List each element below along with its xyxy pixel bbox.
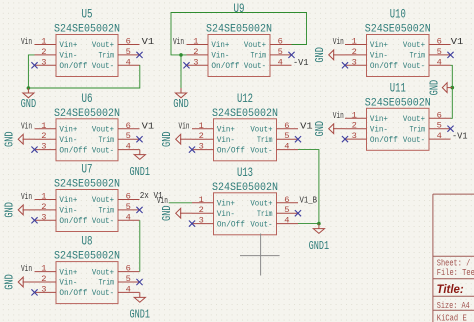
svg-text:Vout-: Vout- xyxy=(403,136,425,145)
svg-text:Trim: Trim xyxy=(99,135,115,145)
no-connect X U12 pin3 xyxy=(189,147,195,153)
IC U6 DC-DC converter body and pins xyxy=(35,119,140,161)
svg-text:On/Off: On/Off xyxy=(59,288,87,298)
svg-text:Vin-: Vin- xyxy=(59,206,77,216)
wire U12 pin4 right and down xyxy=(298,150,319,224)
svg-text:S24SE05002N: S24SE05002N xyxy=(212,182,278,194)
wire U6 pin4 stub xyxy=(139,149,141,151)
svg-text:3: 3 xyxy=(41,142,46,152)
svg-text:3: 3 xyxy=(199,142,204,152)
svg-text:3: 3 xyxy=(41,284,46,294)
svg-text:U9: U9 xyxy=(234,1,245,16)
no-connect X U13 pin3 xyxy=(189,221,195,227)
svg-text:Title:: Title: xyxy=(437,284,467,296)
svg-text:Vout-: Vout- xyxy=(92,62,114,71)
svg-text:Trim: Trim xyxy=(99,278,115,288)
IC U5 DC-DC converter body and pins xyxy=(35,35,140,77)
power symbol GND (left, rotated) U6 pin2 xyxy=(3,131,35,147)
svg-text:3: 3 xyxy=(352,131,357,141)
IC U9 DC-DC converter body and pins xyxy=(187,35,292,77)
power symbol GND (attached left of junction) right column xyxy=(427,80,452,96)
svg-text:Vout-: Vout- xyxy=(92,217,114,226)
svg-text:5: 5 xyxy=(126,47,131,57)
svg-text:5: 5 xyxy=(126,274,131,284)
svg-text:Vin-: Vin- xyxy=(217,209,235,219)
svg-text:4: 4 xyxy=(126,212,131,222)
power symbol GND1 (down) at U8 pin4 xyxy=(130,292,151,321)
svg-text:6: 6 xyxy=(437,37,442,47)
svg-text:U12: U12 xyxy=(237,91,253,106)
no-connect X U11 pin3 xyxy=(342,136,348,142)
svg-text:V1: V1 xyxy=(142,120,155,131)
power symbol GND (left, rotated) U7 pin2 xyxy=(3,202,35,218)
svg-text:6: 6 xyxy=(126,121,131,131)
svg-text:Vin: Vin xyxy=(157,195,168,206)
svg-text:Size: A4: Size: A4 xyxy=(437,301,470,311)
svg-text:GND: GND xyxy=(160,131,174,147)
svg-text:S24SE05002N: S24SE05002N xyxy=(365,24,431,36)
svg-text:V1: V1 xyxy=(142,36,155,47)
svg-text:Vin: Vin xyxy=(173,36,184,47)
no-connect X U12 pin5 xyxy=(295,136,301,142)
svg-text:S24SE05002N: S24SE05002N xyxy=(54,108,120,120)
no-connect X U13 pin5 xyxy=(295,210,301,216)
svg-text:GND: GND xyxy=(160,205,174,221)
svg-text:GND: GND xyxy=(3,202,17,218)
svg-text:Vout+: Vout+ xyxy=(92,268,114,277)
svg-text:4: 4 xyxy=(284,142,289,152)
svg-text:Vout+: Vout+ xyxy=(403,41,425,50)
svg-text:On/Off: On/Off xyxy=(211,61,239,71)
svg-text:1: 1 xyxy=(352,37,357,47)
no-connect X U11 pin5 xyxy=(447,126,453,132)
svg-text:V1_B: V1_B xyxy=(300,194,318,205)
svg-text:5: 5 xyxy=(126,131,131,141)
svg-text:S24SE05002N: S24SE05002N xyxy=(206,24,272,36)
svg-text:Vin: Vin xyxy=(21,36,32,47)
svg-text:1: 1 xyxy=(352,110,357,120)
svg-text:Vin+: Vin+ xyxy=(370,114,388,124)
svg-text:Vin: Vin xyxy=(179,120,190,131)
svg-text:GND: GND xyxy=(427,80,441,96)
svg-text:V1: V1 xyxy=(300,120,313,131)
junction GND node right xyxy=(451,86,455,90)
svg-text:Vout+: Vout+ xyxy=(244,41,266,50)
svg-text:Vout+: Vout+ xyxy=(250,126,272,135)
svg-text:S24SE05002N: S24SE05002N xyxy=(365,97,431,109)
svg-text:Vin: Vin xyxy=(333,110,344,121)
svg-text:Vin-: Vin- xyxy=(217,135,235,145)
no-connect X U10 pin5 xyxy=(447,52,453,58)
svg-text:On/Off: On/Off xyxy=(370,135,398,145)
svg-text:Vin+: Vin+ xyxy=(370,40,388,50)
no-connect X U7 pin3 xyxy=(31,217,37,223)
svg-text:GND: GND xyxy=(21,97,37,111)
svg-text:2: 2 xyxy=(41,202,46,212)
svg-text:Vin-: Vin- xyxy=(59,278,77,288)
svg-text:4: 4 xyxy=(126,284,131,294)
power symbol GND (down) below U9 xyxy=(173,88,189,111)
svg-text:1: 1 xyxy=(199,121,204,131)
svg-text:4: 4 xyxy=(126,57,131,67)
svg-text:Trim: Trim xyxy=(410,51,426,61)
svg-text:KiCad E: KiCad E xyxy=(437,313,467,322)
svg-text:U7: U7 xyxy=(82,162,93,177)
no-connect X U9 pin5 xyxy=(288,52,294,58)
power symbol GND (left, rotated) U8 pin2 xyxy=(3,274,35,290)
svg-text:GND: GND xyxy=(3,274,17,290)
power symbol GND (down) below U5 xyxy=(21,88,37,111)
svg-text:6: 6 xyxy=(126,192,131,202)
svg-text:Vout+: Vout+ xyxy=(92,41,114,50)
svg-text:GND: GND xyxy=(3,131,17,147)
svg-text:1: 1 xyxy=(41,121,46,131)
svg-text:4: 4 xyxy=(284,216,289,226)
wire U13 pin4 to GND1 junction xyxy=(298,223,319,225)
svg-text:GND: GND xyxy=(173,97,189,111)
IC U13 DC-DC converter body and pins xyxy=(192,193,298,235)
svg-text:Trim: Trim xyxy=(410,124,426,134)
svg-text:S24SE05002N: S24SE05002N xyxy=(54,179,120,191)
no-connect X U5 pin3 xyxy=(31,62,37,68)
svg-text:2: 2 xyxy=(41,47,46,57)
svg-text:6: 6 xyxy=(126,37,131,47)
svg-text:2: 2 xyxy=(41,274,46,284)
svg-text:Vin+: Vin+ xyxy=(59,267,77,277)
svg-text:Vout+: Vout+ xyxy=(92,126,114,135)
wire U5 pin4 down and left to GND junction xyxy=(28,65,139,88)
svg-text:Trim: Trim xyxy=(257,135,273,145)
junction U13 GND1 node xyxy=(317,222,321,226)
svg-text:1: 1 xyxy=(41,192,46,202)
svg-text:5: 5 xyxy=(284,131,289,141)
svg-text:1: 1 xyxy=(193,37,198,47)
svg-text:3: 3 xyxy=(199,216,204,226)
svg-text:Vin+: Vin+ xyxy=(211,40,229,50)
svg-text:4: 4 xyxy=(437,57,442,67)
svg-text:Vin: Vin xyxy=(21,191,32,202)
svg-text:6: 6 xyxy=(126,264,131,274)
IC U12 DC-DC converter body and pins xyxy=(192,119,298,161)
svg-text:3: 3 xyxy=(41,212,46,222)
svg-text:Vin+: Vin+ xyxy=(59,125,77,135)
svg-text:GND: GND xyxy=(313,47,327,63)
svg-text:Vin+: Vin+ xyxy=(59,40,77,50)
svg-text:U8: U8 xyxy=(82,234,93,249)
svg-text:2: 2 xyxy=(41,131,46,141)
svg-text:GND1: GND1 xyxy=(130,165,151,179)
svg-text:U11: U11 xyxy=(390,80,406,95)
svg-text:4: 4 xyxy=(437,131,442,141)
svg-text:2: 2 xyxy=(193,47,198,57)
svg-text:On/Off: On/Off xyxy=(59,145,87,155)
power symbol GND (left, rotated) U10 pin2 xyxy=(313,47,345,63)
svg-text:Vout-: Vout- xyxy=(250,146,272,155)
svg-text:Vin-: Vin- xyxy=(59,51,77,61)
svg-text:Vin: Vin xyxy=(21,263,32,274)
svg-text:2: 2 xyxy=(199,205,204,215)
svg-text:Trim: Trim xyxy=(99,51,115,61)
svg-text:Vin+: Vin+ xyxy=(217,199,235,209)
wire U5 pin2 to GND junction xyxy=(28,55,34,88)
svg-text:Sheet: /: Sheet: / xyxy=(437,258,471,268)
svg-text:Vin-: Vin- xyxy=(370,51,388,61)
svg-text:U5: U5 xyxy=(82,7,93,22)
svg-text:On/Off: On/Off xyxy=(59,216,87,226)
svg-text:S24SE05002N: S24SE05002N xyxy=(212,108,278,120)
svg-text:Vin: Vin xyxy=(333,36,344,47)
svg-text:Vout-: Vout- xyxy=(403,62,425,71)
svg-text:Trim: Trim xyxy=(257,209,273,219)
svg-text:On/Off: On/Off xyxy=(217,145,245,155)
svg-text:On/Off: On/Off xyxy=(370,61,398,71)
svg-text:Vout+: Vout+ xyxy=(250,200,272,209)
svg-text:GND: GND xyxy=(313,121,327,137)
svg-text:4: 4 xyxy=(126,142,131,152)
svg-text:2: 2 xyxy=(352,47,357,57)
svg-text:5: 5 xyxy=(437,121,442,131)
svg-text:S24SE05002N: S24SE05002N xyxy=(54,251,120,263)
svg-text:2: 2 xyxy=(352,121,357,131)
svg-text:Trim: Trim xyxy=(251,51,267,61)
svg-text:Trim: Trim xyxy=(99,206,115,216)
no-connect X U6 pin3 xyxy=(31,147,37,153)
power symbol GND1 (down) at U6 pin4 xyxy=(130,150,151,179)
svg-text:U10: U10 xyxy=(390,7,406,22)
svg-text:2: 2 xyxy=(199,131,204,141)
no-connect X U10 pin3 xyxy=(342,62,348,68)
power symbol GND (left, rotated) U12 pin2 xyxy=(160,131,192,147)
junction U9 pin2 node xyxy=(179,53,183,57)
wire U13 pin1 extension xyxy=(169,202,192,204)
svg-text:5: 5 xyxy=(278,47,283,57)
svg-text:1: 1 xyxy=(41,37,46,47)
svg-text:1: 1 xyxy=(41,264,46,274)
svg-text:Vin+: Vin+ xyxy=(217,125,235,135)
svg-text:3: 3 xyxy=(352,57,357,67)
svg-text:Vout-: Vout- xyxy=(244,62,266,71)
svg-text:6: 6 xyxy=(284,121,289,131)
svg-text:On/Off: On/Off xyxy=(59,61,87,71)
IC U7 DC-DC converter body and pins xyxy=(35,190,140,232)
IC U10 DC-DC converter body and pins xyxy=(345,35,451,77)
no-connect X U8 pin3 xyxy=(31,289,37,295)
wire U7 pin4 down to U8 pin6 xyxy=(139,220,141,271)
svg-text:On/Off: On/Off xyxy=(217,219,245,229)
cursor crosshair xyxy=(240,234,280,276)
junction U5 GND node xyxy=(27,86,31,90)
no-connect X U5 pin5 xyxy=(136,52,142,58)
svg-text:-V1: -V1 xyxy=(293,57,309,68)
svg-text:6: 6 xyxy=(437,110,442,120)
svg-text:6: 6 xyxy=(278,37,283,47)
wire U9 pin6 feedback loop to pin2 xyxy=(171,13,307,55)
svg-text:U13: U13 xyxy=(237,165,253,180)
wire U10 pin4 down to U11 pin6 xyxy=(451,65,453,118)
svg-text:Vout-: Vout- xyxy=(250,220,272,229)
svg-text:Vout+: Vout+ xyxy=(92,196,114,205)
svg-text:6: 6 xyxy=(284,195,289,205)
svg-text:Vin-: Vin- xyxy=(211,51,229,61)
svg-text:U6: U6 xyxy=(82,91,93,106)
svg-text:Vin-: Vin- xyxy=(59,135,77,145)
svg-text:5: 5 xyxy=(284,205,289,215)
IC U11 DC-DC converter body and pins xyxy=(345,108,451,150)
title block frame xyxy=(433,194,474,322)
svg-text:1: 1 xyxy=(199,195,204,205)
svg-text:File: Tee: File: Tee xyxy=(437,268,474,278)
svg-text:Vin-: Vin- xyxy=(370,124,388,134)
wire U9 pin2 node down to GND xyxy=(180,55,182,88)
no-connect X U9 pin3 xyxy=(183,62,189,68)
svg-text:Vout+: Vout+ xyxy=(403,115,425,124)
svg-text:Vout-: Vout- xyxy=(92,146,114,155)
svg-text:Vin: Vin xyxy=(21,120,32,131)
IC U8 DC-DC converter body and pins xyxy=(35,262,140,304)
svg-text:Vout-: Vout- xyxy=(92,289,114,298)
power symbol GND (left, rotated) U13 pin2 xyxy=(160,205,192,221)
power symbol GND (left, rotated) U11 pin2 xyxy=(313,121,345,137)
svg-text:GND1: GND1 xyxy=(309,239,330,253)
svg-text:3: 3 xyxy=(41,57,46,67)
no-connect X U7 pin5 xyxy=(136,207,142,213)
no-connect X U8 pin5 xyxy=(136,279,142,285)
svg-text:-V1: -V1 xyxy=(452,131,468,142)
svg-text:5: 5 xyxy=(126,202,131,212)
svg-text:5: 5 xyxy=(437,47,442,57)
svg-text:Vin+: Vin+ xyxy=(59,195,77,205)
svg-text:V1: V1 xyxy=(451,36,464,47)
svg-text:4: 4 xyxy=(278,57,283,67)
power symbol GND1 (down) below U13 xyxy=(309,224,330,253)
svg-text:3: 3 xyxy=(193,57,198,67)
no-connect X U6 pin5 xyxy=(136,136,142,142)
svg-text:S24SE05002N: S24SE05002N xyxy=(54,24,120,36)
svg-text:GND1: GND1 xyxy=(130,308,151,322)
